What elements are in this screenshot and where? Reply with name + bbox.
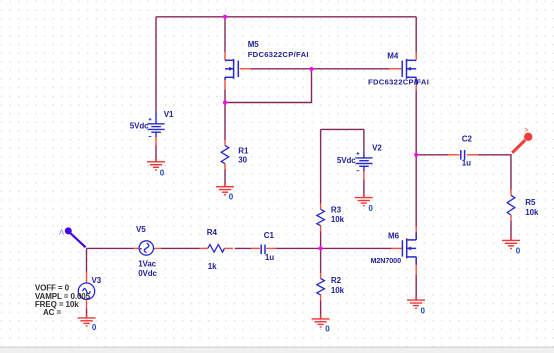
svg-text:1k: 1k [208,262,217,271]
svg-text:0: 0 [160,168,165,177]
svg-text:0Vdc: 0Vdc [138,269,157,278]
svg-text:V5: V5 [136,225,146,234]
svg-text:M6: M6 [388,231,400,240]
svg-text:M5: M5 [248,40,260,49]
svg-text:V2: V2 [372,143,382,152]
svg-text:R5: R5 [525,198,536,207]
svg-text:0: 0 [92,323,97,332]
svg-text:R3: R3 [331,205,342,214]
svg-text:FDC6322CP/FAI: FDC6322CP/FAI [368,78,429,87]
svg-text:5Vdc: 5Vdc [337,156,356,165]
svg-text:Λ: Λ [59,228,64,237]
svg-text:30: 30 [238,155,247,164]
svg-text:0: 0 [421,307,426,316]
svg-text:M4: M4 [387,52,399,61]
svg-text:FDC6322CP/FAI: FDC6322CP/FAI [248,50,309,59]
svg-text:1Vac: 1Vac [138,259,156,268]
svg-text:M2N7000: M2N7000 [371,256,402,265]
svg-text:0: 0 [229,193,234,202]
svg-text:R1: R1 [238,147,249,156]
svg-text:R4: R4 [207,228,218,237]
svg-text:1u: 1u [265,253,274,262]
svg-text:V3: V3 [92,276,102,285]
svg-text:5Vdc: 5Vdc [130,122,149,131]
svg-text:0: 0 [368,204,373,213]
svg-text:C2: C2 [462,135,473,144]
svg-text:0: 0 [325,324,330,333]
svg-text:10k: 10k [525,208,539,217]
svg-text:AC =: AC = [43,308,61,317]
svg-text:R2: R2 [331,276,342,285]
svg-text:C1: C1 [264,231,275,240]
svg-text:V1: V1 [164,110,174,119]
svg-text:10k: 10k [331,286,345,295]
svg-text:>: > [524,125,528,134]
svg-text:1u: 1u [462,159,471,168]
svg-text:10k: 10k [331,215,345,224]
svg-text:0: 0 [516,247,521,256]
